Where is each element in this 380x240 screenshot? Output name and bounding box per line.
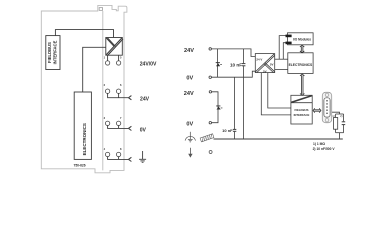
svg-text:0V: 0V (140, 127, 147, 133)
svg-text:5V: 5V (270, 62, 274, 66)
svg-text:0V: 0V (186, 76, 193, 82)
svg-text:I/O Modules: I/O Modules (293, 37, 311, 41)
svg-text:2) 10 nF/500 V: 2) 10 nF/500 V (313, 147, 336, 151)
svg-text:FIELDBUS: FIELDBUS (295, 108, 309, 112)
svg-text:4: 4 (104, 147, 106, 151)
svg-text:24 V: 24 V (256, 58, 262, 62)
svg-text:10 nF: 10 nF (230, 62, 242, 67)
svg-text:1: 1 (104, 55, 106, 59)
svg-text:5V: 5V (263, 69, 267, 73)
svg-text:24V/0V: 24V/0V (140, 62, 157, 68)
svg-text:750-626: 750-626 (74, 164, 86, 168)
svg-text:1) 1 MΩ: 1) 1 MΩ (313, 142, 325, 146)
svg-text:24V: 24V (184, 48, 194, 54)
svg-text:0V: 0V (186, 122, 193, 128)
svg-text:6: 6 (120, 83, 122, 87)
svg-text:8: 8 (120, 147, 122, 151)
svg-text:INTERFACE: INTERFACE (294, 113, 310, 117)
svg-text:2): 2) (340, 114, 343, 118)
svg-text:5: 5 (120, 55, 122, 59)
svg-text:10 nF: 10 nF (222, 128, 233, 133)
svg-text:24V: 24V (184, 91, 194, 97)
svg-text:1): 1) (332, 114, 335, 118)
svg-text:24V: 24V (140, 96, 150, 102)
svg-text:7: 7 (120, 116, 122, 120)
svg-text:FIELDBUSINTERFACE: FIELDBUSINTERFACE (47, 40, 58, 64)
svg-text:3: 3 (104, 116, 106, 120)
svg-text:ELECTRONICS: ELECTRONICS (82, 123, 87, 155)
svg-text:ELECTRONICS: ELECTRONICS (289, 63, 313, 67)
svg-text:2: 2 (104, 83, 106, 87)
